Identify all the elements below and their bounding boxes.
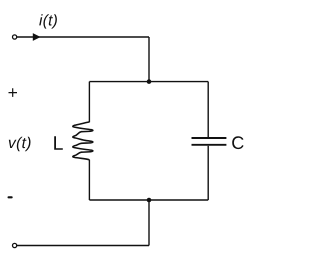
wire: right branch lower segment: [207, 146, 209, 200]
wire: bottom terminal to junction column: [17, 245, 149, 247]
node: bottom junction dot: [147, 198, 152, 203]
wire: down from bottom junction to bottom rail: [148, 200, 150, 246]
input terminal bottom (open circle): [13, 243, 17, 247]
wire: left branch lower segment: [88, 160, 90, 200]
wire: down from top rail to junction: [148, 37, 150, 82]
label C: [232, 136, 243, 149]
wire: right branch upper segment: [207, 82, 209, 138]
label i(t): [39, 14, 57, 28]
wire: top rail of LC loop: [89, 81, 208, 83]
wire: top terminal to top-right corner: [17, 36, 149, 38]
capacitor C bottom plate: [192, 144, 227, 146]
current arrow i(t): [33, 33, 41, 41]
node: top junction dot: [147, 79, 152, 84]
inductor L coil: [73, 122, 93, 160]
label + (polarity): [9, 88, 18, 97]
label v(t): [9, 137, 31, 151]
input terminal top (open circle): [13, 35, 17, 39]
wire: bottom rail of LC loop: [89, 199, 208, 201]
capacitor C top plate: [192, 137, 227, 139]
label L: [54, 136, 63, 149]
wire: left branch upper segment: [88, 82, 90, 123]
label - (polarity): [8, 196, 13, 198]
